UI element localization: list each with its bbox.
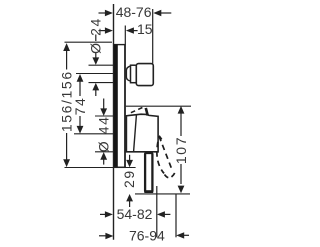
svg-text:107: 107 <box>173 136 189 164</box>
dimension 107 <box>178 106 185 193</box>
node extension line knob axis <box>76 73 114 75</box>
node extension line sleeve top <box>95 115 114 117</box>
node extension line knob bottom <box>89 82 115 84</box>
dimension 48-76 <box>99 10 172 16</box>
node extension line body front <box>156 186 158 237</box>
lever grip <box>145 153 152 192</box>
dimension 15 <box>99 27 138 33</box>
node extension line sleeve bottom <box>95 151 114 153</box>
knob neck <box>126 66 130 81</box>
knob ring <box>131 65 137 83</box>
svg-text:76-94: 76-94 <box>129 227 165 243</box>
node extension line 156 top <box>65 41 113 43</box>
dimension 29 <box>126 155 133 207</box>
node extension line handle axis <box>74 133 114 135</box>
svg-text:Ø 44: Ø 44 <box>96 116 112 153</box>
dimension 54-82 <box>100 211 170 217</box>
node extension line lever reach <box>175 194 177 237</box>
svg-text:29: 29 <box>121 169 137 188</box>
dimension diameter 44 <box>100 99 107 165</box>
svg-text:48-76: 48-76 <box>116 4 152 20</box>
handle body <box>126 114 158 152</box>
node extension line plate front <box>124 26 126 45</box>
plate escutcheon <box>113 45 126 168</box>
svg-text:Ø 24: Ø 24 <box>88 17 104 54</box>
svg-text:15: 15 <box>137 21 153 37</box>
dimension 156/156 <box>63 43 70 167</box>
svg-text:74: 74 <box>72 97 88 116</box>
node extension line plate bottom <box>65 167 136 169</box>
node extension line knob face <box>152 9 154 64</box>
lever swung position dashed <box>157 136 175 178</box>
handle sleeve joint <box>134 115 137 151</box>
dimension 76-94 <box>99 232 189 239</box>
node reference line lever top <box>126 105 191 107</box>
node extension line knob top <box>89 64 115 66</box>
node reference line lever bottom <box>135 193 190 195</box>
lever rear blade <box>146 108 148 116</box>
svg-text:54-82: 54-82 <box>117 206 153 222</box>
dimension 74 <box>77 74 84 134</box>
dimension diameter 24 <box>92 35 99 97</box>
lever raised position dashed <box>131 106 146 113</box>
knob body <box>136 64 153 86</box>
wire wall extension line <box>113 4 115 240</box>
